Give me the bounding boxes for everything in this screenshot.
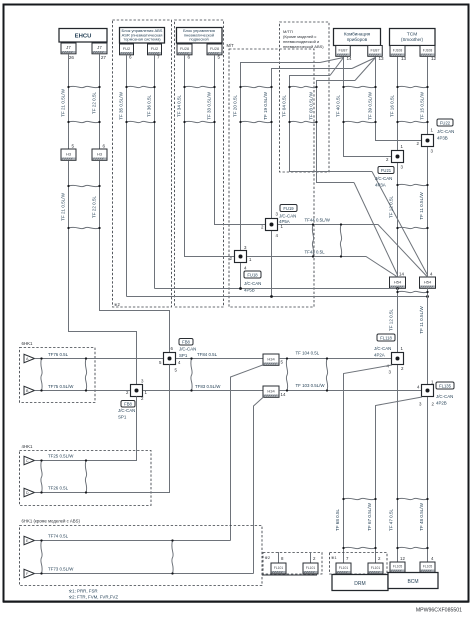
- twisted pair mark (EHCU pair at 228): [67, 227, 100, 229]
- svg-text:FU21: FU21: [381, 168, 392, 173]
- svg-text:TF 20 0.5L: TF 20 0.5L: [233, 94, 238, 117]
- svg-text:3: 3: [401, 165, 404, 170]
- triangle connector E: [24, 536, 35, 544]
- label TF 04 0.5L: [282, 94, 287, 117]
- label J/C-CAN 4P2A: [374, 346, 391, 358]
- wire TF36 0.5L (FU2 pin7 down): [154, 55, 156, 289]
- svg-text:FU19: FU19: [283, 206, 294, 211]
- label TF 12 0.5L: [389, 195, 394, 218]
- svg-text:TF 47 0.5L: TF 47 0.5L: [389, 508, 394, 531]
- svg-text:4: 4: [178, 360, 181, 365]
- wire stub to FL101 pin 2: [310, 552, 312, 563]
- wire TF73 0.5L/W (triangle F to riser x253): [35, 573, 254, 575]
- pin 2: [313, 556, 316, 561]
- svg-text:D: D: [26, 491, 29, 495]
- label FL135: [436, 382, 454, 389]
- wire TF12 0.5L (4P3A to H54): [397, 163, 399, 277]
- wire TF04 steep diagonal to H54 right: [372, 172, 428, 276]
- wire TF25 0.5L/W (triangle C riser to SP1 lower): [35, 397, 137, 461]
- wire H54 left continues down: [397, 288, 399, 352]
- label TF43 0.5L: [305, 250, 326, 255]
- svg-text:TF43 0.5L: TF43 0.5L: [305, 250, 326, 255]
- block pneumatic suspension control unit: [177, 28, 223, 44]
- connector FU2 (left): [120, 44, 134, 55]
- dashed box 6HK1 except ABS models: [20, 526, 263, 586]
- junction J/C-CAN 4P2A: [392, 353, 404, 365]
- label 6HK1 except ABS: [22, 519, 81, 524]
- connector H34 (lower): [263, 386, 279, 397]
- connector FJ108 (right): [420, 46, 435, 57]
- connector J7 (EHCU left): [61, 43, 76, 54]
- wire TF44 0.5L/W (4P5A to H54 right): [278, 225, 428, 278]
- pin 2 (4P3B): [417, 141, 420, 146]
- pin 5 (H34 upper): [281, 360, 284, 365]
- svg-text:6HK1: 6HK1: [22, 341, 34, 346]
- dashed variant box (ABS/ASR brake system models): [113, 20, 172, 307]
- label TF 21 0.5L/W: [61, 192, 66, 220]
- svg-text:4P2A: 4P2A: [374, 353, 385, 358]
- svg-text:13: 13: [379, 56, 385, 61]
- pin 1 (4P2B): [431, 380, 434, 385]
- connector H3 (left): [61, 149, 76, 160]
- wire TF03 0.5L/W (corner down to row 182): [317, 81, 356, 183]
- label TF 39 0.5L/W: [368, 91, 373, 119]
- svg-text:H54: H54: [394, 280, 402, 285]
- svg-text:J/C-CAN: J/C-CAN: [118, 408, 135, 413]
- svg-text:4P3A: 4P3A: [375, 183, 386, 188]
- svg-text:TF 22 0.5L: TF 22 0.5L: [92, 91, 97, 114]
- svg-text:FU28: FU28: [180, 47, 189, 51]
- connector FU2 (right): [148, 44, 162, 55]
- svg-text:1: 1: [249, 257, 252, 262]
- svg-text:TF 04 0.5L: TF 04 0.5L: [282, 94, 287, 117]
- svg-text:TF 104 0.5L: TF 104 0.5L: [296, 351, 320, 356]
- pin 3 (4P2A): [389, 370, 392, 375]
- svg-text:M/T: M/T: [227, 43, 235, 48]
- junction J/C-CAN 4P3B: [422, 135, 434, 147]
- twisted pair mark (TF74/73 x75): [40, 539, 42, 574]
- label TF74 0.5L: [48, 534, 69, 539]
- svg-text:4P3B: 4P3B: [437, 136, 448, 141]
- svg-text:FU87: FU87: [370, 49, 379, 53]
- svg-text:3: 3: [431, 149, 434, 154]
- twisted pair mark (TF20/19 lower): [239, 121, 272, 123]
- pin 4 (4P2B): [417, 385, 420, 390]
- pin 14 (H54 left): [399, 272, 404, 277]
- svg-text:FL105: FL105: [393, 565, 403, 569]
- label TF 19 0.5L/W: [263, 91, 268, 119]
- svg-text:26: 26: [69, 55, 75, 60]
- svg-text:12: 12: [431, 56, 437, 61]
- twisted pair mark (TF47/48 upper): [396, 498, 428, 500]
- svg-text:7: 7: [157, 55, 160, 60]
- wire TF19 diagonal to FU87 pin13: [352, 58, 376, 69]
- twisted pair mark (TF04/03 upper): [288, 86, 317, 88]
- wire 4P2A diagonal to DRM wire: [344, 365, 393, 564]
- dashed box 4HK1: [20, 451, 152, 506]
- triangle connector C: [24, 456, 35, 464]
- svg-text:FL105: FL105: [423, 565, 433, 569]
- wire TF22 below H3 to corner: [100, 161, 170, 353]
- label TF 40 0.5L: [336, 94, 341, 117]
- svg-text:J/C-CAN: J/C-CAN: [244, 281, 261, 286]
- label TF 36 0.5L: [147, 94, 152, 117]
- pin 4 (4P2A): [387, 364, 390, 369]
- pin 6 (FU28): [188, 55, 191, 60]
- svg-text:J/C-CAN: J/C-CAN: [179, 347, 196, 352]
- svg-text:FB8: FB8: [182, 339, 190, 344]
- wire TF39 0.5L/W (FU87 pin13 down to FU22 pin2): [376, 57, 422, 141]
- connector FL101 (variant left): [271, 563, 286, 574]
- label FB8 (upper): [179, 339, 193, 346]
- junction dot 4P5A pin4 join: [270, 295, 273, 298]
- twisted pair mark (TF47/48 lower): [396, 547, 428, 549]
- block DRM: [332, 575, 388, 591]
- svg-text:14: 14: [281, 392, 286, 397]
- wire TF83 0.5L/W (SP1 lower to H34): [143, 390, 263, 392]
- block TCM (Smoother): [390, 29, 436, 46]
- pin 4 (4P5A): [276, 233, 279, 238]
- wire TF22 0.5L (EHCU pin27 to H3): [99, 54, 101, 149]
- triangle connector B: [24, 386, 35, 394]
- twisted pair mark (TF34/33 upper): [183, 86, 215, 88]
- connector FU87 (right): [368, 46, 383, 57]
- wire TF15 0.5L/W (FJ108 pin12 to FU22): [427, 57, 429, 135]
- label TF83 0.5L/W: [195, 384, 221, 389]
- pin 1 (4P3B): [431, 128, 434, 133]
- label #2 tag: [265, 555, 271, 560]
- svg-text:TF 34 0.5L: TF 34 0.5L: [177, 94, 182, 117]
- svg-text:TF 35 0.5L/W: TF 35 0.5L/W: [119, 91, 124, 119]
- pin 1 (4P2A): [401, 346, 404, 351]
- pin 8: [281, 556, 284, 561]
- svg-text:4: 4: [417, 385, 420, 390]
- pin 1 (4P5A): [281, 224, 284, 229]
- junction dot at (427.5,296.5): [426, 295, 429, 298]
- label J/C-CAN 4P3A: [375, 176, 392, 188]
- pin 3 (4P3B): [431, 149, 434, 154]
- junction J/C-CAN 4P5A: [266, 219, 278, 231]
- svg-text:FB8: FB8: [124, 401, 132, 406]
- pin 13 (FJ108): [401, 56, 407, 61]
- svg-text:TF76 0.5L: TF76 0.5L: [48, 352, 69, 357]
- pin 1 (4P5B): [249, 257, 252, 262]
- svg-text:FU2: FU2: [151, 46, 159, 51]
- label TF76 0.5L: [48, 352, 69, 357]
- svg-text:12: 12: [400, 556, 405, 561]
- svg-text:FL118: FL118: [380, 335, 392, 340]
- pin 2 (4P2A): [401, 366, 404, 371]
- svg-text:TF25 0.5L/W: TF25 0.5L/W: [48, 454, 74, 459]
- label TF 22 0.5L: [92, 195, 97, 218]
- pin 12 (BCM): [400, 556, 405, 561]
- junction dot at (397,288.5): [396, 287, 399, 290]
- label TF25 0.5L/W: [48, 454, 74, 459]
- wire 4P2B down to BCM: [427, 397, 429, 563]
- twisted pair mark (TF04/03 lower): [288, 121, 317, 123]
- svg-text:2: 2: [141, 396, 144, 401]
- wire TF04 diagonal to FU87 pin14: [330, 58, 344, 76]
- label 4HK1: [22, 444, 34, 449]
- svg-text:4: 4: [276, 233, 279, 238]
- svg-text:TF 11 0.5L/W: TF 11 0.5L/W: [419, 306, 424, 334]
- junction J/C-CAN 4P5B: [235, 251, 247, 263]
- label 6HK1: [22, 341, 34, 346]
- label J/C-CAN 4P5A: [279, 214, 296, 225]
- pin 5 (SP1 upper bottom): [175, 368, 178, 373]
- label M/TP note: [283, 29, 324, 49]
- svg-text:H3: H3: [97, 152, 103, 157]
- label TF 47 0.5L: [389, 508, 394, 531]
- wire TF26 0.5L (triangle D riser to SP1 upper): [35, 365, 170, 493]
- svg-text:TF84 0.5L: TF84 0.5L: [197, 352, 218, 357]
- junction dot 4P5B pin4 join: [239, 287, 242, 290]
- svg-text:2: 2: [386, 157, 389, 162]
- pin 7 (DRM): [346, 556, 349, 561]
- svg-text:4: 4: [430, 272, 433, 277]
- pin 2 (4P2B): [432, 402, 435, 407]
- svg-text:4HK1: 4HK1: [22, 444, 34, 449]
- twisted pair mark (TF68/67 upper): [342, 498, 376, 500]
- pin 5 (FU28): [218, 55, 221, 60]
- junction J/C-CAN 4P3A: [392, 151, 404, 163]
- dashed box variant #2 connectors: [263, 553, 322, 575]
- label J/C-CAN SP1 (upper): [179, 347, 196, 359]
- svg-text:※2: ※2: [265, 555, 271, 560]
- svg-text:3: 3: [419, 402, 422, 407]
- svg-text:2: 2: [378, 556, 381, 561]
- svg-text:6: 6: [129, 55, 132, 60]
- triangle connector D: [24, 488, 35, 496]
- svg-text:2: 2: [432, 402, 435, 407]
- connector FU28 (left): [177, 44, 192, 55]
- svg-text:FU22: FU22: [440, 120, 451, 125]
- svg-text:2: 2: [261, 225, 264, 230]
- twisted pair mark (TF74/73 x170): [171, 539, 173, 574]
- wire TF19 0.5L/W (corner to FU19 junction): [272, 69, 353, 219]
- pin 3 (4P3A): [401, 165, 404, 170]
- wire TF75 0.5L/W (triangle B to SP1 junction): [35, 390, 131, 392]
- dashed box variant #1 DRM connectors: [330, 553, 388, 575]
- dashed box 6HK1: [20, 348, 96, 403]
- wire TF20 diagonal to FU87 pin14: [320, 58, 344, 63]
- svg-text:J/C-CAN: J/C-CAN: [375, 176, 392, 181]
- pin 13 (FU87): [379, 56, 385, 61]
- wire H34 upper diagonal to riser: [231, 365, 265, 541]
- connector FL101 (DRM left): [336, 563, 351, 574]
- wire 4P5A pin4 drop to L/W row: [271, 231, 273, 297]
- label TF73 0.5L/W: [48, 567, 74, 572]
- pin 3 (SP1 lower): [141, 379, 144, 384]
- twisted pair mark (TF16/15 upper): [396, 86, 428, 88]
- svg-text:TF 68 0.5L: TF 68 0.5L: [335, 508, 340, 531]
- block BCM: [388, 573, 438, 589]
- twisted pair mark (TF25/26 x75): [40, 459, 42, 493]
- svg-text:FU2: FU2: [123, 46, 131, 51]
- svg-text:FU28: FU28: [210, 47, 219, 51]
- label TF 21 0.5L/W (upper): [61, 88, 66, 116]
- svg-text:※1: PRR, FSR: ※1: PRR, FSR: [69, 589, 98, 594]
- svg-text:3: 3: [389, 370, 392, 375]
- svg-text:приборов: приборов: [347, 37, 368, 42]
- svg-text:TF 19 0.5L/W: TF 19 0.5L/W: [263, 91, 268, 119]
- pin 2 (SP1 lower bottom): [141, 396, 144, 401]
- label FB8 (lower): [121, 401, 135, 408]
- connector H3 (right): [92, 149, 107, 160]
- svg-text:6: 6: [171, 346, 174, 351]
- svg-text:FL101: FL101: [274, 566, 284, 570]
- label TF 103 0.5L/W: [296, 383, 326, 388]
- pin 4 (SP1 upper right): [178, 360, 181, 365]
- twisted pair mark (TF20/19 upper): [239, 86, 272, 88]
- twisted pair mark (TF35/36 upper): [125, 86, 155, 88]
- label TF 68 0.5L: [335, 508, 340, 531]
- svg-text:(Smoother): (Smoother): [401, 37, 423, 42]
- junction J/C-CAN 4P2B: [422, 385, 434, 397]
- label FL118: [377, 334, 395, 341]
- pin 3 (4P2B): [419, 402, 422, 407]
- wire TF 103 0.5L/W (H34 to 4P2B): [279, 390, 421, 392]
- twisted pair mark (TF35/36 lower): [125, 121, 155, 123]
- connector FJ108 (left): [390, 46, 405, 57]
- label TF 15 0.5L/W: [420, 91, 425, 119]
- svg-text:BCM: BCM: [407, 579, 418, 585]
- pin 3 (4P5A): [276, 212, 279, 217]
- label TF 35 0.5L/W: [119, 91, 124, 119]
- label TF 20 0.5L: [233, 94, 238, 117]
- twisted pair mark (EHCU pair upper): [67, 86, 100, 88]
- wire 4P5B pin4 drop to L row: [240, 263, 242, 289]
- svg-text:TF 103 0.5L/W: TF 103 0.5L/W: [296, 383, 326, 388]
- svg-text:5: 5: [218, 55, 221, 60]
- wire TF04 0.5L (corner down to row 171): [290, 76, 373, 172]
- svg-text:13: 13: [401, 56, 407, 61]
- wire TF16 0.5L (FJ108 pin13 to FU21): [397, 57, 399, 152]
- twisted pair mark (TF44/43 at x299): [312, 223, 314, 257]
- wire TF34 0.5L (FU28 pin6 down): [185, 55, 235, 257]
- twisted pair mark (TF84/83 x191): [190, 357, 192, 391]
- svg-text:6: 6: [188, 55, 191, 60]
- svg-text:MPW96CXF085501: MPW96CXF085501: [416, 608, 462, 614]
- pin 2 (4P5B): [230, 256, 233, 261]
- svg-text:TF 36 0.5L: TF 36 0.5L: [147, 94, 152, 117]
- pin 2 (SP1 lower left): [126, 390, 129, 395]
- label TF 03 0.5L/W: [309, 91, 314, 119]
- twisted pair mark (TF76/75 x86): [85, 357, 87, 391]
- rail under variant connectors: [262, 574, 317, 576]
- label FU18: [244, 271, 261, 278]
- label #1 tag: [331, 555, 337, 560]
- wire stub to FL101 pin 8: [278, 552, 280, 563]
- svg-text:TF 03 0.5L/W: TF 03 0.5L/W: [309, 91, 314, 119]
- label TF 48 0.5L/W: [419, 502, 424, 530]
- variant tag #2 for ABS box: [114, 302, 121, 307]
- junction J/C-CAN SP1 (upper, L line): [164, 353, 176, 365]
- svg-text:1: 1: [431, 380, 434, 385]
- svg-text:FJ108: FJ108: [423, 49, 433, 53]
- triangle connector F: [24, 569, 35, 577]
- pin 6 (SP1 upper): [171, 346, 174, 351]
- label TF 67 0.5L/W: [367, 502, 372, 530]
- twisted pair mark (EHCU pair at 122): [67, 121, 100, 123]
- svg-text:FL101: FL101: [371, 566, 381, 570]
- label TF 12 0.5L (below H54): [389, 308, 394, 331]
- label J/C-CAN 4P3B: [437, 129, 454, 141]
- pin 6 (FU2): [129, 55, 132, 60]
- svg-text:4: 4: [431, 556, 434, 561]
- svg-text:1: 1: [401, 144, 404, 149]
- connector H34 (upper): [263, 354, 279, 365]
- pin 5 (SP1 upper left): [159, 360, 162, 365]
- svg-text:FL135: FL135: [439, 383, 452, 388]
- wire 4P2A down to BCM: [397, 365, 399, 563]
- label TF26 0.5L: [48, 486, 69, 491]
- wire TF21 below H3 to corner: [69, 161, 137, 385]
- connector FL101 (variant right): [303, 563, 318, 574]
- wire H34 lower diagonal to riser: [254, 397, 265, 574]
- svg-text:C: C: [26, 459, 29, 463]
- twisted pair mark (below H54): [396, 291, 428, 293]
- pin 4 (4P5B): [244, 266, 247, 271]
- twisted pair mark (EHCU pair at 186): [67, 185, 100, 187]
- svg-text:H3: H3: [66, 152, 72, 157]
- svg-text:FU87: FU87: [338, 49, 347, 53]
- label TF44 0.5L/W: [305, 218, 331, 223]
- svg-text:1: 1: [401, 346, 404, 351]
- svg-text:J/C-CAN: J/C-CAN: [436, 394, 453, 399]
- connector H54 (right): [420, 277, 436, 288]
- wire TF40 0.5L (FU87 pin14 down to FU21 pin2): [344, 57, 392, 157]
- svg-text:8: 8: [281, 556, 284, 561]
- svg-text:TF 33 0.5L/W: TF 33 0.5L/W: [207, 91, 212, 119]
- svg-text:TF 22 0.5L: TF 22 0.5L: [92, 195, 97, 218]
- label TF 16 0.5L: [390, 94, 395, 117]
- svg-text:5: 5: [175, 368, 178, 373]
- wire TF20 0.5L (corner to FU18 junction): [241, 63, 321, 251]
- svg-text:4P2B: 4P2B: [436, 401, 447, 406]
- twisted pair mark (TF12/11 lower): [396, 227, 428, 229]
- twisted pair mark (TF104/103 x327): [326, 357, 328, 391]
- label J/C-CAN 4P2B: [436, 394, 453, 406]
- label TF 22 0.5L (upper): [92, 91, 97, 114]
- svg-text:TF26 0.5L: TF26 0.5L: [48, 486, 69, 491]
- label FU21: [378, 167, 394, 174]
- svg-text:TF75 0.5L/W: TF75 0.5L/W: [48, 384, 74, 389]
- svg-text:H34: H34: [267, 357, 275, 362]
- connector FL105 (BCM right): [420, 562, 435, 572]
- legend note 1: [69, 589, 98, 594]
- twisted pair mark (TF68/67 lower): [342, 547, 376, 549]
- twisted pair mark (TF34/33 lower): [183, 121, 215, 123]
- svg-text:подвеской: подвеской: [189, 37, 208, 42]
- svg-text:5: 5: [72, 144, 75, 149]
- twisted pair mark (TF12/11 upper): [396, 184, 428, 186]
- dashed variant box (pneumatic suspension models): [175, 20, 224, 307]
- pin 2 (4P5A): [261, 225, 264, 230]
- svg-text:FJ108: FJ108: [393, 49, 403, 53]
- dashed variant box M/T: [229, 49, 314, 307]
- wire TF03 diagonal to FU87 pin13: [355, 58, 376, 81]
- label J/C-CAN 4P5B: [244, 281, 261, 293]
- svg-text:※2: ※2: [114, 302, 121, 307]
- pin 2 (DRM): [378, 556, 381, 561]
- svg-text:27: 27: [101, 55, 107, 60]
- svg-text:3: 3: [141, 379, 144, 384]
- svg-text:пневматической ABS): пневматической ABS): [283, 44, 324, 49]
- twisted pair mark (TF40/39 upper): [342, 86, 376, 88]
- svg-text:3: 3: [244, 245, 247, 250]
- connector FU28 (right): [207, 44, 222, 55]
